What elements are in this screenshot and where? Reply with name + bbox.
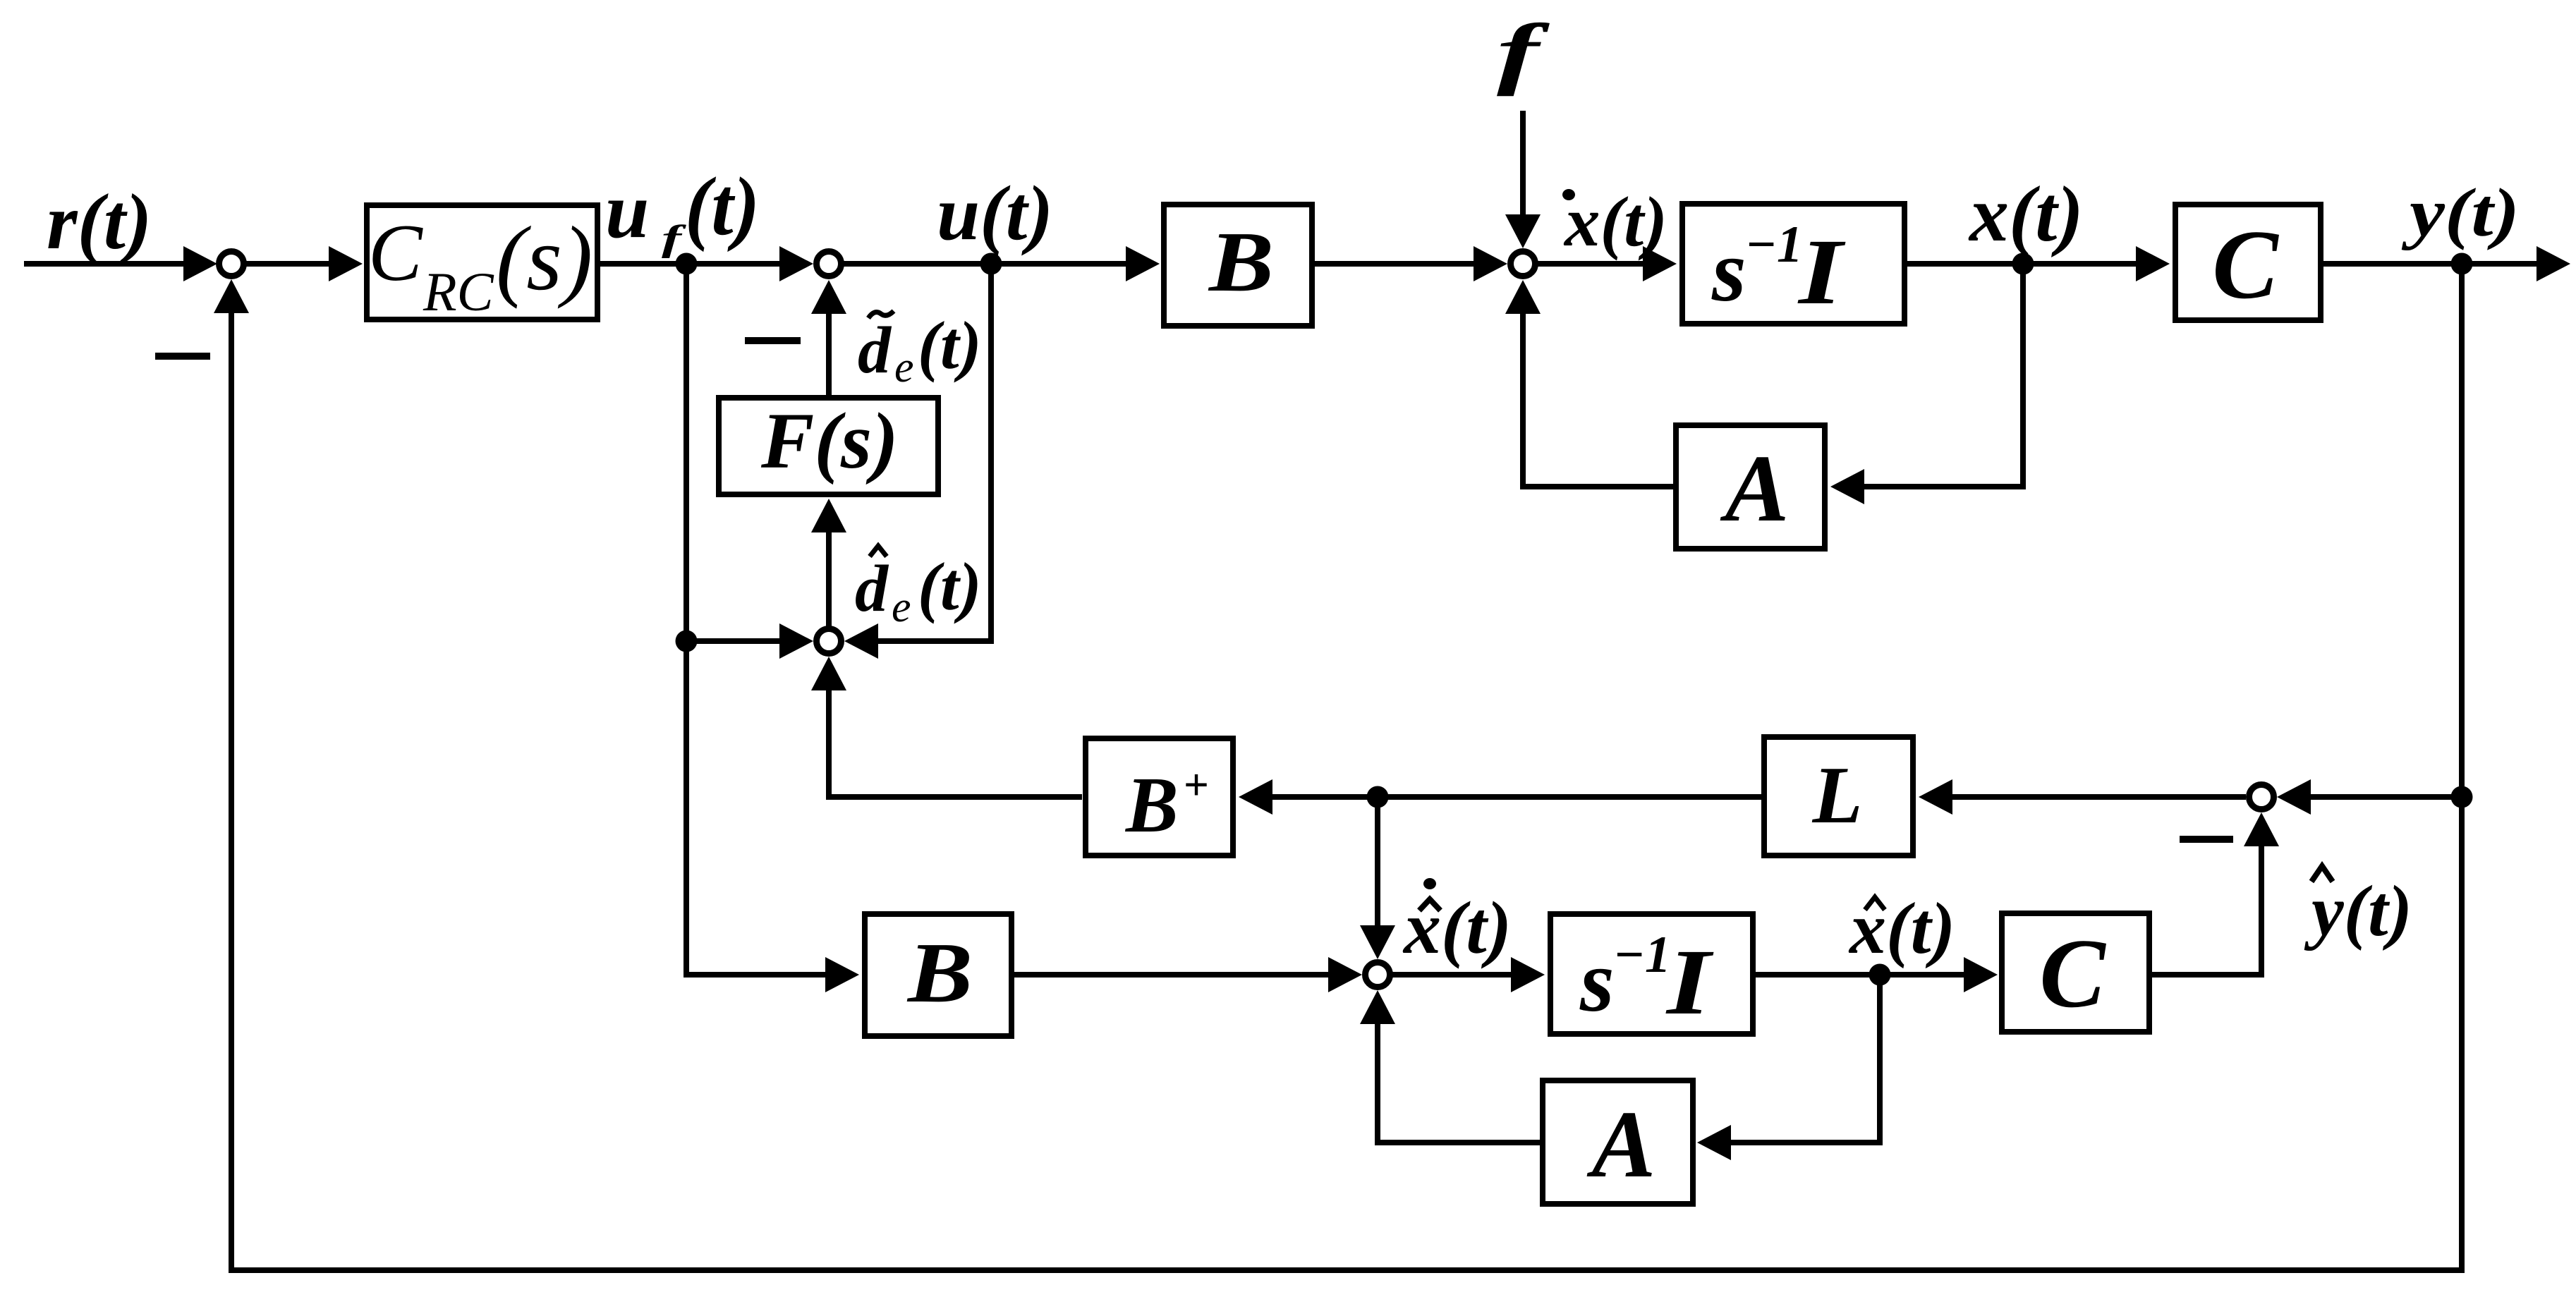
summing junction S5 <box>1366 963 1390 987</box>
block B lower <box>865 914 1011 1036</box>
wire f drop <box>1520 111 1526 217</box>
svg-text:C: C <box>2212 210 2279 319</box>
minus sign at S1 <box>155 353 210 360</box>
block A upper <box>1676 425 1825 549</box>
label yhat(t) <box>2311 866 2333 882</box>
node y(t) <box>2451 253 2473 275</box>
block L <box>1764 737 1913 855</box>
svg-text:L: L <box>1812 750 1863 841</box>
node on y vertical <box>2451 786 2473 808</box>
wire C lower up to S6 <box>2152 846 2261 975</box>
wire S4 up to F(s) <box>826 530 832 626</box>
wire A lower out to S5 <box>1378 1024 1540 1143</box>
wire u_f vertical and branch to B lower <box>686 264 828 975</box>
wire u_f branch to S4 <box>686 638 782 644</box>
wire L to Bplus <box>1272 794 1763 800</box>
label dhat_e(t) <box>870 546 887 556</box>
block s-1I lower <box>1550 914 1753 1034</box>
wire s1I lower to C lower <box>1756 972 1967 978</box>
wire F(s) up to S2 <box>826 314 832 395</box>
svg-text:I: I <box>1797 219 1846 324</box>
wire u vertical to S4 <box>875 264 991 641</box>
svg-text:(t): (t) <box>685 160 760 252</box>
svg-text:s: s <box>1579 933 1615 1030</box>
svg-text:x(t): x(t) <box>1968 171 2084 258</box>
wire s1I to C <box>1907 261 2139 267</box>
svg-text:A: A <box>1586 1092 1656 1198</box>
wire r(t) input <box>24 261 186 267</box>
summing junction S3 <box>1511 252 1536 276</box>
svg-text:A: A <box>1720 436 1790 542</box>
wire S3 to s1I <box>1538 261 1646 267</box>
svg-text:s: s <box>1711 223 1746 320</box>
wire xhat branch to A lower <box>1731 975 1880 1143</box>
svg-text:B: B <box>1208 214 1274 310</box>
wire B to S3 <box>1315 261 1476 267</box>
node on L line <box>1367 786 1389 808</box>
wire y branch to S6 <box>2311 794 2459 800</box>
summing junction S4 <box>817 629 842 654</box>
svg-text:x(t): x(t) <box>1402 887 1512 969</box>
block C upper <box>2175 205 2321 320</box>
svg-text:−1: −1 <box>1745 216 1803 274</box>
wire y(t) feedback: right vertical, bottom run, left vertical <box>231 264 2462 1270</box>
svg-text:B: B <box>906 925 973 1021</box>
arrowhead into S1 from below <box>214 279 249 313</box>
svg-text:C: C <box>368 208 423 298</box>
svg-text:+: + <box>1184 760 1209 810</box>
svg-text:e: e <box>892 583 911 631</box>
svg-text:(s): (s) <box>496 208 593 310</box>
svg-text:d: d <box>855 552 889 626</box>
svg-text:x(t): x(t) <box>1848 888 1955 969</box>
svg-text:(t): (t) <box>918 307 982 383</box>
svg-text:x(t): x(t) <box>1563 182 1667 261</box>
wire C to output <box>2323 261 2538 267</box>
block F(s) <box>719 398 938 494</box>
svg-text:u: u <box>605 167 649 255</box>
svg-text:r(t): r(t) <box>47 178 152 266</box>
label xhat(t) <box>1865 897 1885 910</box>
summing junction S2 <box>817 252 842 276</box>
label xhatdot(t) <box>1423 878 1436 889</box>
svg-text:I: I <box>1665 930 1714 1034</box>
label xdot(t) <box>1562 189 1575 200</box>
svg-text:d: d <box>858 314 892 387</box>
node u(t) <box>980 253 1002 275</box>
wire Bplus out to S4 <box>829 689 1082 797</box>
block Bplus <box>1086 738 1233 855</box>
wire CRC to S2 <box>600 261 782 267</box>
block A lower <box>1543 1080 1693 1204</box>
svg-text:(t): (t) <box>918 549 982 624</box>
wire S6 to L <box>1952 794 2246 800</box>
label dtilde_e(t) <box>868 311 894 318</box>
svg-text:y(t): y(t) <box>2304 871 2412 951</box>
svg-text:B: B <box>1124 762 1179 849</box>
svg-text:F(s): F(s) <box>760 397 899 485</box>
summing junction S1 <box>219 252 244 276</box>
wire B lower to S5 <box>1014 972 1331 978</box>
node xhat <box>1869 964 1891 986</box>
node x(t) <box>2012 253 2034 275</box>
block B upper <box>1164 205 1312 326</box>
block CRC(s) <box>367 205 597 319</box>
wire S1 to CRC <box>246 261 332 267</box>
arrowhead into B lower <box>825 957 859 992</box>
svg-text:RC: RC <box>423 261 494 322</box>
minus sign at S6 <box>2180 836 2233 843</box>
svg-text:e: e <box>894 343 914 391</box>
svg-text:u(t): u(t) <box>937 170 1053 256</box>
svg-text:C: C <box>2039 919 2106 1028</box>
wire x branch to A upper <box>1840 264 2023 487</box>
block s-1I upper <box>1682 204 1904 324</box>
node u_f <box>676 253 698 275</box>
wire S5 to s1I lower <box>1392 972 1514 978</box>
wire A upper out to S3 <box>1523 314 1673 487</box>
block C lower <box>2002 913 2149 1032</box>
node on u_f vertical <box>676 631 698 652</box>
summing junction S6 <box>2249 785 2274 810</box>
minus sign at S2 <box>745 337 801 344</box>
svg-text:−1: −1 <box>1613 926 1671 984</box>
svg-text:y(t): y(t) <box>2402 175 2520 251</box>
wire L line down to S5 <box>1375 797 1380 925</box>
wire S2 to B <box>844 261 1129 267</box>
